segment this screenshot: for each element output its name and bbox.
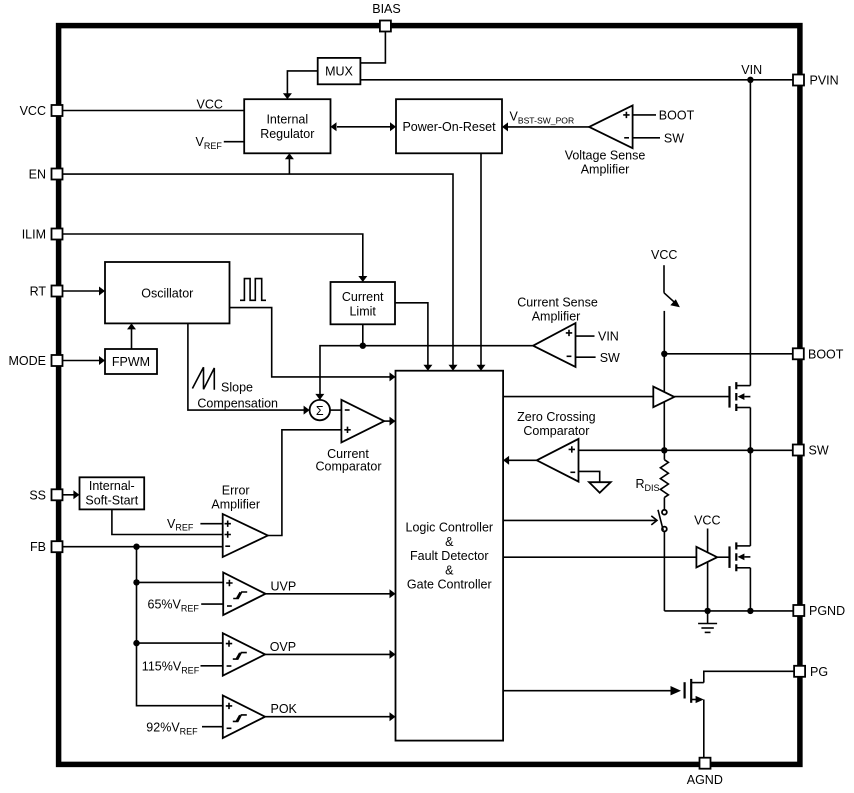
arrowhead into Internal Regulator top <box>283 93 292 99</box>
wire logic controller to PG FET gate <box>503 690 671 692</box>
svg-text:BOOT: BOOT <box>808 347 844 361</box>
wire SW down to low-side FET drain <box>749 450 751 546</box>
wire logic controller to discharge switch (open arrow) <box>503 516 657 525</box>
buffer high-side gate driver <box>653 387 674 408</box>
wire OVP output to logic controller <box>265 653 394 655</box>
wire VIN rail down to high-side FET drain <box>749 80 751 386</box>
op-amp Voltage Sense Amplifier <box>589 106 633 149</box>
transistor PG open-drain NMOS <box>685 679 704 703</box>
wire ZCC - input to ground <box>579 471 600 482</box>
block Internal-Soft-Start <box>80 477 145 509</box>
svg-text:BIAS: BIAS <box>372 2 401 16</box>
icon slope compensation sawtooth <box>192 367 214 390</box>
pin AGND <box>687 758 723 787</box>
wire 92%VREF stub to POK - input <box>202 726 223 728</box>
pin SW <box>793 444 829 458</box>
node junction dot OVP branch <box>133 640 139 646</box>
wire sigma to current comparator <box>330 409 341 411</box>
svg-text:SW: SW <box>809 444 829 458</box>
block Logic Controller / Fault Detector / Gate Controller <box>396 371 504 741</box>
wire to OVP + input <box>137 642 223 644</box>
op-amp Current Sense Amplifier <box>533 323 575 367</box>
node SW junction dots <box>661 447 667 453</box>
wire POK output to logic controller <box>265 716 394 718</box>
svg-text:EN: EN <box>29 168 46 182</box>
wire oscillator clock output to logic controller <box>230 308 395 377</box>
node PGND junction dots <box>704 608 710 614</box>
svg-text:Comparator: Comparator <box>523 424 589 438</box>
wire PG FET source to AGND pin <box>703 700 705 758</box>
wire CSA SW input stub <box>576 356 596 358</box>
svg-text:Amplifier: Amplifier <box>532 310 581 324</box>
svg-text:Soft-Start: Soft-Start <box>85 493 138 507</box>
wire MUX output to Internal Regulator <box>287 71 317 98</box>
svg-text:POK: POK <box>271 702 298 716</box>
svg-text:SW: SW <box>600 351 620 365</box>
svg-text:MUX: MUX <box>325 65 353 79</box>
svg-text:Comparator: Comparator <box>316 459 382 473</box>
wire BOOT rail to BOOT pin <box>664 353 793 355</box>
svg-text:Oscillator: Oscillator <box>141 286 193 300</box>
wire CSA VIN input stub <box>576 335 595 337</box>
svg-text:Limit: Limit <box>349 304 376 318</box>
block FPWM <box>105 349 157 374</box>
pin MODE <box>9 354 63 368</box>
svg-text:Zero Crossing: Zero Crossing <box>517 410 596 424</box>
switch bootstrap VCC switch <box>664 265 680 354</box>
svg-text:VCC: VCC <box>197 98 223 112</box>
block Current Limit <box>331 282 396 324</box>
wire PGND line to PGND pin <box>664 610 793 612</box>
transistor high-side NMOS <box>730 382 751 411</box>
svg-text:PVIN: PVIN <box>810 74 839 88</box>
wire VCC pin to Internal Regulator <box>63 110 244 112</box>
svg-text:&: & <box>445 563 454 577</box>
wire 65%VREF stub to UVP - input <box>201 603 223 605</box>
node junction dot UVP branch <box>133 579 139 585</box>
svg-text:VIN: VIN <box>741 63 762 77</box>
comparator UVP <box>223 573 265 616</box>
pin FB <box>30 540 62 554</box>
wire UVP output to logic controller <box>266 593 395 595</box>
wire VIN/PVIN rail from MUX to PVIN pin <box>360 79 793 81</box>
pin PG <box>794 665 828 679</box>
block Internal Regulator <box>244 99 330 153</box>
switch discharge switch <box>658 510 667 611</box>
wire to UVP + input <box>137 581 224 583</box>
wire VSA BOOT input stub <box>633 114 656 116</box>
node FB junction dot <box>133 544 139 550</box>
wire logic controller to low-side driver <box>503 556 696 558</box>
pin RT <box>30 285 63 299</box>
svg-text:ILIM: ILIM <box>22 228 46 242</box>
block Oscillator <box>105 262 230 323</box>
svg-text:FPWM: FPWM <box>112 355 150 369</box>
wire POR output down to logic controller <box>480 153 482 369</box>
svg-text:MODE: MODE <box>9 354 47 368</box>
wire EN branch up into Internal Regulator <box>288 155 290 175</box>
wire low-side FET source down to PGND <box>749 568 751 611</box>
svg-text:SS: SS <box>29 488 46 502</box>
pin PVIN <box>793 74 839 88</box>
pin ILIM <box>22 228 63 242</box>
op-amp Zero Crossing Comparator <box>537 439 579 482</box>
block Power-On-Reset U-POR <box>396 99 502 153</box>
comparator POK <box>223 696 265 739</box>
wire Current Limit output to logic controller top <box>395 303 428 370</box>
wire VREF stub to error amplifier <box>200 523 222 525</box>
svg-text:Internal: Internal <box>266 113 308 127</box>
wire ZCC output into logic controller <box>504 459 537 461</box>
wire high-side FET source down to SW <box>749 408 751 451</box>
wire oscillator ramp output to sigma adder <box>188 323 309 410</box>
wire SS pin to soft-start block <box>63 494 78 496</box>
svg-text:Amplifier: Amplifier <box>581 163 630 177</box>
wire bootstrap rail down through driver to SW <box>663 354 665 451</box>
wire VCC down through low-side driver to PGND <box>707 529 709 611</box>
wire FB branch down to comparators <box>137 547 223 706</box>
buffer low-side gate driver <box>696 547 717 568</box>
wire EN run to logic controller <box>63 174 453 369</box>
svg-text:VCC: VCC <box>651 248 677 262</box>
svg-text:Amplifier: Amplifier <box>211 498 260 512</box>
wire MODE to FPWM <box>63 360 104 362</box>
wire soft-start output to error amplifier + input <box>112 509 223 534</box>
wire driver output to high-side FET gate <box>674 396 729 398</box>
wire VSA SW input stub <box>633 137 660 139</box>
wire error amp output up to current comparator + input <box>268 430 342 536</box>
icon clock square wave <box>240 279 266 301</box>
pin SS <box>29 488 62 502</box>
pin EN <box>29 168 63 182</box>
wire ILIM to Current Limit <box>63 234 363 281</box>
svg-text:Error: Error <box>222 484 250 498</box>
mux U-MUX <box>318 58 361 84</box>
op-amp Error Amplifier <box>223 514 268 557</box>
wire Internal Regulator to Power-On-Reset (double arrow) <box>337 126 390 128</box>
wire PG FET drain to PG pin <box>704 671 794 682</box>
pin BOOT <box>793 347 844 361</box>
svg-text:Current Sense: Current Sense <box>517 296 598 310</box>
comparator OVP <box>223 633 265 676</box>
svg-text:Internal-: Internal- <box>89 479 135 493</box>
op-amp Current Comparator <box>341 400 384 443</box>
wire FB pin to error amplifier - input <box>63 546 223 548</box>
resistor R_DIS <box>660 450 668 509</box>
wire current comparator output to logic controller <box>384 420 394 422</box>
svg-text:Slope: Slope <box>221 381 253 395</box>
ground power ground symbol <box>698 611 717 633</box>
pin PGND <box>793 604 845 618</box>
wire driver output to low-side FET gate <box>717 556 729 558</box>
pin VCC <box>20 104 63 118</box>
svg-text:UVP: UVP <box>271 579 297 593</box>
svg-text:OVP: OVP <box>270 640 296 654</box>
summing node sigma <box>310 400 330 420</box>
svg-text:Regulator: Regulator <box>260 127 314 141</box>
svg-text:PG: PG <box>810 665 828 679</box>
wire Current Limit bottom to CSA output line <box>362 324 364 345</box>
wire BIAS drop to MUX <box>360 32 385 63</box>
wire RT to Oscillator <box>63 290 104 292</box>
svg-text:RT: RT <box>30 285 47 299</box>
wire 115%VREF stub to OVP - input <box>201 665 223 667</box>
transistor low-side NMOS <box>730 542 751 571</box>
svg-text:VCC: VCC <box>694 514 720 528</box>
svg-text:SW: SW <box>664 131 684 145</box>
wire FPWM to Oscillator <box>131 324 133 349</box>
wire logic controller to high-side driver <box>503 396 653 398</box>
ground (signal ground at ZCC) <box>589 482 611 493</box>
svg-text:Voltage Sense: Voltage Sense <box>565 149 646 163</box>
node VIN junction dot <box>747 77 753 83</box>
svg-text:BOOT: BOOT <box>659 109 695 123</box>
pin BIAS <box>372 2 401 32</box>
svg-text:Gate Controller: Gate Controller <box>407 578 492 592</box>
svg-text:Compensation: Compensation <box>197 397 278 411</box>
wire VSA output into POR <box>508 126 589 128</box>
svg-text:PGND: PGND <box>809 604 845 618</box>
node BOOT junction dot <box>661 351 667 357</box>
svg-text:&: & <box>445 535 454 549</box>
wire VREF stub into Internal Regulator <box>224 141 244 143</box>
svg-text:Σ: Σ <box>316 404 324 418</box>
svg-text:VCC: VCC <box>20 104 46 118</box>
svg-text:Power-On-Reset: Power-On-Reset <box>402 120 496 134</box>
svg-text:Fault Detector: Fault Detector <box>410 549 489 563</box>
svg-text:AGND: AGND <box>687 773 723 787</box>
svg-text:Current: Current <box>342 290 384 304</box>
svg-text:VIN: VIN <box>598 330 619 344</box>
node junction dot current-limit/CSA <box>360 343 366 349</box>
wire CSA output to sigma adder <box>320 346 533 399</box>
wire SW line from ZCC + input to SW pin <box>579 449 793 451</box>
svg-text:Logic Controller: Logic Controller <box>406 521 494 535</box>
svg-text:FB: FB <box>30 540 46 554</box>
